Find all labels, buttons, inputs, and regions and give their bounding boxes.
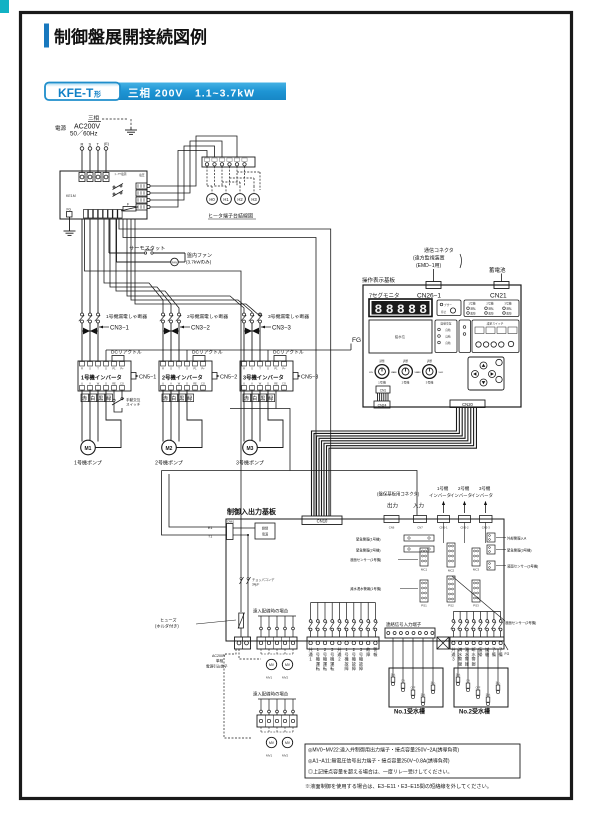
svg-text:CN21: CN21 bbox=[490, 293, 507, 300]
svg-text:CN1: CN1 bbox=[380, 389, 387, 393]
svg-text:MV1: MV1 bbox=[266, 676, 273, 680]
svg-text:故障: 故障 bbox=[506, 311, 512, 315]
svg-text:KE1M: KE1M bbox=[66, 194, 76, 198]
svg-text:FAN: FAN bbox=[172, 261, 177, 265]
svg-text:P+: P+ bbox=[201, 367, 205, 371]
svg-text:◎MV0~MV22:遠入弁制御用出力端子・接点容量250V~: ◎MV0~MV22:遠入弁制御用出力端子・接点容量250V~2A(誘導負荷) bbox=[308, 747, 459, 754]
svg-text:漏入: 漏入 bbox=[496, 681, 501, 685]
svg-text:予備: 予備 bbox=[499, 646, 503, 658]
svg-text:MAX: MAX bbox=[439, 371, 444, 374]
svg-text:2号機インバータ: 2号機インバータ bbox=[162, 374, 203, 382]
svg-text:CO: CO bbox=[201, 382, 205, 386]
svg-text:運転: 運転 bbox=[470, 307, 476, 311]
svg-text:黒: 黒 bbox=[260, 396, 265, 402]
svg-text:R: R bbox=[81, 367, 83, 371]
svg-text:制御入出力基板: 制御入出力基板 bbox=[227, 507, 277, 516]
svg-text:三相: 三相 bbox=[88, 114, 100, 122]
svg-text:電源: 電源 bbox=[55, 124, 67, 132]
svg-text:3号機漏電しゃ断器: 3号機漏電しゃ断器 bbox=[268, 313, 309, 320]
svg-text:AC200V: AC200V bbox=[74, 124, 100, 131]
svg-text:ト-??電源: ト-??電源 bbox=[114, 172, 127, 176]
svg-text:3号機: 3号機 bbox=[504, 302, 511, 306]
svg-text:自動: 自動 bbox=[445, 335, 451, 339]
svg-text:白: 白 bbox=[90, 395, 95, 402]
svg-text:2号機: 2号機 bbox=[458, 485, 470, 492]
svg-text:G: G bbox=[186, 382, 188, 386]
svg-text:制御盤展開接続図例: 制御盤展開接続図例 bbox=[54, 27, 207, 47]
svg-text:E1: E1 bbox=[208, 526, 212, 530]
svg-text:手動交互: 手動交互 bbox=[126, 397, 141, 402]
svg-text:自動: 自動 bbox=[445, 328, 451, 332]
svg-text:8: 8 bbox=[408, 302, 416, 317]
svg-text:1号機: 1号機 bbox=[468, 302, 475, 306]
svg-text:ヒータ端子台結線図: ヒータ端子台結線図 bbox=[208, 213, 253, 220]
svg-text:CN5−3: CN5−3 bbox=[301, 374, 318, 380]
svg-text:(ホルダ付き): (ホルダ付き) bbox=[155, 623, 179, 630]
svg-text:黒: 黒 bbox=[179, 396, 184, 402]
svg-text:緊急警報(3号機): 緊急警報(3号機) bbox=[507, 548, 532, 553]
svg-text:◎A1~A11:無電圧信号出力端子・接点容量250V~0.8: ◎A1~A11:無電圧信号出力端子・接点容量250V~0.8A(誘導負荷) bbox=[308, 758, 450, 765]
svg-text:G: G bbox=[267, 382, 269, 386]
svg-text:(EMD−1用): (EMD−1用) bbox=[416, 263, 441, 269]
svg-text:運転: 運転 bbox=[506, 307, 512, 311]
svg-text:S: S bbox=[89, 367, 91, 371]
svg-text:OFF: OFF bbox=[411, 687, 416, 690]
svg-text:H0: H0 bbox=[209, 197, 215, 202]
svg-text:ヒューズ: ヒューズ bbox=[160, 617, 177, 624]
svg-text:FG: FG bbox=[67, 208, 72, 212]
svg-text:外部警報入A: 外部警報入A bbox=[507, 536, 527, 541]
svg-text:KFE-T: KFE-T bbox=[58, 86, 94, 100]
svg-text:DCリアクトル: DCリアクトル bbox=[273, 350, 304, 356]
svg-text:自動交互: 自動交互 bbox=[440, 322, 451, 326]
svg-text:遠入配線時の場合: 遠入配線時の場合 bbox=[253, 608, 289, 615]
svg-text:緑: 緑 bbox=[106, 395, 111, 402]
svg-text:調整: 調整 bbox=[379, 359, 385, 363]
svg-text:No.1受水槽: No.1受水槽 bbox=[394, 708, 425, 716]
svg-text:CN3−3: CN3−3 bbox=[272, 326, 292, 332]
svg-text:V: V bbox=[89, 382, 91, 386]
svg-text:ON: ON bbox=[466, 680, 470, 683]
svg-text:渇水: 渇水 bbox=[486, 693, 491, 697]
svg-text:MC3: MC3 bbox=[473, 568, 480, 572]
svg-text:CN61: CN61 bbox=[227, 520, 235, 524]
svg-text:緑: 緑 bbox=[268, 395, 273, 402]
svg-text:2号機: 2号機 bbox=[402, 380, 410, 385]
svg-text:MC1: MC1 bbox=[421, 568, 428, 572]
svg-text:MV: MV bbox=[269, 663, 275, 667]
svg-text:CN24: CN24 bbox=[378, 404, 387, 408]
svg-text:黒: 黒 bbox=[98, 396, 103, 402]
svg-text:8: 8 bbox=[397, 302, 405, 317]
svg-text:単相: 単相 bbox=[216, 658, 224, 663]
svg-text:調整: 調整 bbox=[427, 359, 433, 363]
svg-text:渇水: 渇水 bbox=[421, 693, 426, 697]
svg-text:白: 白 bbox=[252, 395, 257, 402]
svg-text:50／60Hz: 50／60Hz bbox=[70, 131, 98, 138]
svg-text:MV1: MV1 bbox=[266, 754, 273, 758]
svg-text:U: U bbox=[243, 382, 245, 386]
svg-text:3号機: 3号機 bbox=[426, 380, 434, 385]
svg-text:M3: M3 bbox=[247, 446, 254, 452]
svg-text:3号機ポンプ: 3号機ポンプ bbox=[236, 460, 264, 467]
svg-text:R: R bbox=[81, 142, 84, 147]
svg-text:電源引込端子: 電源引込端子 bbox=[206, 664, 228, 669]
svg-text:出力: 出力 bbox=[387, 502, 398, 510]
svg-text:漏入: 漏入 bbox=[431, 681, 436, 685]
svg-text:故障: 故障 bbox=[488, 311, 494, 315]
svg-text:RE: RE bbox=[112, 382, 116, 386]
svg-text:P1: P1 bbox=[274, 367, 278, 371]
svg-text:停止: 停止 bbox=[441, 310, 447, 314]
svg-text:PS3: PS3 bbox=[473, 604, 479, 608]
svg-text:緊急警報(1号機): 緊急警報(1号機) bbox=[356, 537, 381, 542]
svg-text:P1: P1 bbox=[193, 367, 197, 371]
svg-text:調整: 調整 bbox=[403, 359, 409, 363]
svg-text:1号機ポンプ: 1号機ポンプ bbox=[74, 460, 102, 467]
svg-text:R: R bbox=[162, 367, 164, 371]
svg-text:インバータ: インバータ bbox=[450, 492, 472, 499]
svg-text:P+: P+ bbox=[282, 367, 286, 371]
svg-text:サーモスタット: サーモスタット bbox=[129, 244, 165, 252]
svg-text:V: V bbox=[251, 382, 253, 386]
svg-text:U: U bbox=[81, 382, 83, 386]
svg-text:MIN: MIN bbox=[392, 372, 396, 374]
svg-text:S: S bbox=[89, 142, 92, 147]
svg-text:V: V bbox=[170, 382, 172, 386]
svg-text:MIN: MIN bbox=[416, 372, 420, 374]
svg-text:1号機インバータ: 1号機インバータ bbox=[81, 374, 122, 382]
svg-text:緊急警報(2号機): 緊急警報(2号機) bbox=[356, 548, 381, 553]
svg-text:自動: 自動 bbox=[445, 341, 451, 345]
svg-text:3号機: 3号機 bbox=[479, 485, 491, 492]
svg-text:H1: H1 bbox=[223, 197, 229, 202]
svg-text:CN5−2: CN5−2 bbox=[220, 374, 237, 380]
svg-text:RE: RE bbox=[274, 382, 278, 386]
svg-text:(E): (E) bbox=[104, 142, 110, 146]
svg-text:H3: H3 bbox=[251, 197, 257, 202]
svg-text:運転: 運転 bbox=[488, 307, 494, 311]
svg-text:電源: 電源 bbox=[262, 532, 269, 537]
svg-text:M1: M1 bbox=[85, 446, 92, 452]
svg-text:ブザー: ブザー bbox=[444, 303, 452, 307]
svg-text:RE: RE bbox=[193, 382, 197, 386]
svg-text:インバータ: インバータ bbox=[471, 492, 493, 499]
svg-text:白: 白 bbox=[171, 395, 176, 402]
svg-text:CN5-3: CN5-3 bbox=[482, 526, 491, 530]
svg-text:(遠方監視装置: (遠方監視装置 bbox=[413, 255, 445, 262]
svg-text:操作表示基板: 操作表示基板 bbox=[362, 276, 396, 284]
svg-text:1号機: 1号機 bbox=[437, 485, 449, 492]
svg-text:S: S bbox=[170, 367, 172, 371]
svg-text:蓄電池: 蓄電池 bbox=[489, 266, 506, 274]
svg-text:S: S bbox=[251, 367, 253, 371]
svg-text:緑: 緑 bbox=[187, 395, 192, 402]
svg-text:CO: CO bbox=[282, 382, 286, 386]
svg-text:CN3−2: CN3−2 bbox=[191, 326, 211, 332]
svg-text:OFF: OFF bbox=[476, 687, 481, 690]
svg-text:通信コネクタ: 通信コネクタ bbox=[424, 247, 454, 254]
svg-text:R: R bbox=[243, 367, 245, 371]
svg-text:G: G bbox=[105, 382, 107, 386]
svg-text:満水: 満水 bbox=[456, 673, 461, 677]
svg-text:CN3−1: CN3−1 bbox=[110, 326, 130, 332]
svg-text:液面センサー(1号機): 液面センサー(1号機) bbox=[350, 557, 381, 562]
svg-text:インバータ: インバータ bbox=[429, 492, 451, 499]
svg-text:赤: 赤 bbox=[244, 396, 249, 402]
svg-text:設定スイッチ: 設定スイッチ bbox=[487, 322, 504, 326]
svg-text:入力: 入力 bbox=[413, 502, 424, 510]
svg-text:MC2: MC2 bbox=[448, 569, 455, 573]
svg-text:G: G bbox=[267, 367, 269, 371]
svg-text:8: 8 bbox=[386, 302, 394, 317]
svg-text:絶縁: 絶縁 bbox=[262, 526, 269, 531]
svg-text:スイッチ: スイッチ bbox=[126, 402, 141, 407]
svg-text:予備: 予備 bbox=[492, 646, 496, 658]
svg-text:CN7: CN7 bbox=[417, 526, 423, 530]
svg-text:遠入配線時の場合: 遠入配線時の場合 bbox=[253, 691, 289, 698]
svg-text:CN20: CN20 bbox=[462, 402, 473, 407]
svg-text:No.2受水槽: No.2受水槽 bbox=[459, 708, 490, 716]
svg-text:三相 200V 1.1~3.7kW: 三相 200V 1.1~3.7kW bbox=[128, 87, 255, 100]
svg-text:G: G bbox=[105, 367, 107, 371]
svg-text:盤内ファン: 盤内ファン bbox=[187, 252, 212, 259]
svg-text:満水: 満水 bbox=[391, 673, 396, 677]
svg-text:3号機インバータ: 3号機インバータ bbox=[243, 374, 284, 382]
svg-text:34μF: 34μF bbox=[252, 583, 259, 587]
svg-text:故障: 故障 bbox=[470, 311, 476, 315]
svg-text:MV2: MV2 bbox=[282, 676, 289, 680]
svg-text:PS1: PS1 bbox=[421, 604, 427, 608]
svg-text:CO: CO bbox=[120, 382, 124, 386]
svg-text:MV: MV bbox=[285, 663, 291, 667]
svg-text:1号機漏電しゃ断器: 1号機漏電しゃ断器 bbox=[106, 313, 147, 320]
svg-text:2号機ポンプ: 2号機ポンプ bbox=[155, 460, 183, 467]
svg-text:G: G bbox=[186, 367, 188, 371]
svg-text:MV2: MV2 bbox=[282, 754, 289, 758]
svg-text:連絡信号入力端子: 連絡信号入力端子 bbox=[386, 621, 422, 628]
svg-text:2号機漏電しゃ断器: 2号機漏電しゃ断器 bbox=[187, 313, 228, 320]
svg-text:◎上記接点容量を超える場合は、一度リレー受けしてください。: ◎上記接点容量を超える場合は、一度リレー受けしてください。 bbox=[308, 769, 453, 776]
svg-text:1号機: 1号機 bbox=[378, 380, 386, 385]
svg-text:8: 8 bbox=[419, 302, 427, 317]
svg-text:2号機: 2号機 bbox=[486, 302, 493, 306]
svg-text:DCリアクトル: DCリアクトル bbox=[192, 350, 223, 356]
svg-text:※液面制御を使用する場合は、E3−E11・E3−E15間の短: ※液面制御を使用する場合は、E3−E11・E3−E15間の短絡線を外してください… bbox=[305, 782, 492, 790]
svg-text:P1: P1 bbox=[112, 367, 116, 371]
svg-text:減水渇水警報(1号機): 減水渇水警報(1号機) bbox=[350, 586, 381, 591]
svg-text:FG: FG bbox=[505, 652, 510, 656]
svg-text:CN6: CN6 bbox=[389, 526, 395, 530]
svg-text:MV: MV bbox=[285, 741, 291, 745]
svg-text:CN5−1: CN5−1 bbox=[139, 374, 156, 380]
svg-text:MIN: MIN bbox=[369, 372, 373, 374]
svg-text:赤: 赤 bbox=[82, 396, 87, 402]
svg-text:FG: FG bbox=[352, 337, 361, 344]
svg-text:T1: T1 bbox=[208, 535, 212, 539]
svg-text:(盤保基板用コネクタ): (盤保基板用コネクタ) bbox=[377, 491, 420, 498]
svg-text:液面センサー(2号機): 液面センサー(2号機) bbox=[505, 620, 536, 625]
svg-text:8: 8 bbox=[375, 302, 383, 317]
svg-text:M2: M2 bbox=[166, 446, 173, 452]
svg-text:U: U bbox=[162, 382, 164, 386]
svg-text:形: 形 bbox=[94, 90, 101, 99]
svg-text:P+: P+ bbox=[120, 367, 124, 371]
svg-text:H2: H2 bbox=[237, 197, 243, 202]
svg-text:DCリアクトル: DCリアクトル bbox=[111, 350, 142, 356]
svg-text:液面センサー(3号機): 液面センサー(3号機) bbox=[507, 564, 538, 569]
svg-text:MV: MV bbox=[269, 741, 275, 745]
svg-text:赤: 赤 bbox=[163, 396, 168, 402]
svg-text:PS2: PS2 bbox=[448, 604, 454, 608]
svg-text:ON: ON bbox=[401, 680, 405, 683]
svg-text:電圧: 電圧 bbox=[139, 173, 145, 177]
svg-text:チョッパコンデ: チョッパコンデ bbox=[252, 577, 275, 582]
svg-text:給水位: 給水位 bbox=[395, 334, 406, 339]
